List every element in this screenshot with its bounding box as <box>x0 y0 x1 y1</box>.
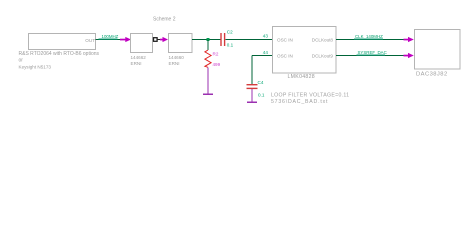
underline of net label CLK_140MHZ <box>354 38 383 40</box>
svg-text:0.1: 0.1 <box>258 93 265 98</box>
wire junction to R2 <box>207 40 209 50</box>
svg-text:OSC IN: OSC IN <box>277 38 293 43</box>
svg-text:OUT: OUT <box>85 38 95 43</box>
svg-text:LMK04828: LMK04828 <box>288 74 316 80</box>
svg-text:Keysight N5173: Keysight N5173 <box>19 65 52 70</box>
svg-text:100MHZ: 100MHZ <box>102 34 119 39</box>
svg-text:OSC IN: OSC IN <box>277 54 293 59</box>
svg-text:R&S RTO2064 with RTO-B6 option: R&S RTO2064 with RTO-B6 options <box>19 51 100 57</box>
svg-text:Scheme 2: Scheme 2 <box>153 17 176 23</box>
arrow into attenuator 2 <box>160 37 168 42</box>
ground bar below C4 <box>247 101 257 103</box>
wire DCLKout9 to DAC <box>336 55 405 57</box>
wire C2 to OSC IN pin 43 <box>225 39 272 41</box>
capacitor C4 <box>247 84 258 89</box>
underline of net label 100MHZ <box>99 38 118 40</box>
svg-text:144660: 144660 <box>169 55 185 60</box>
wire attenuator 2 to C2 <box>192 39 220 41</box>
svg-text:DCLKout8: DCLKout8 <box>312 38 334 43</box>
svg-text:SYSREF_DAC: SYSREF_DAC <box>358 50 387 55</box>
svg-text:DAC38J82: DAC38J82 <box>416 72 448 78</box>
wire C4 to ground <box>251 89 253 101</box>
block signal generator (R&S RTO2064) <box>29 34 96 50</box>
svg-text:ERNI: ERNI <box>131 61 142 66</box>
attenuator block 144660 <box>169 34 193 53</box>
svg-text:C2: C2 <box>227 30 233 35</box>
svg-text:ERNI: ERNI <box>169 61 180 66</box>
svg-text:5736\DAC_BAD.txt: 5736\DAC_BAD.txt <box>271 99 328 105</box>
wire OUT to arrow <box>96 39 122 41</box>
wire R2 to ground <box>207 67 209 93</box>
pin square on attenuator output <box>154 38 158 42</box>
svg-text:DCLKout9: DCLKout9 <box>312 54 334 59</box>
arrow into attenuator 1 <box>120 37 131 42</box>
svg-text:R2: R2 <box>213 52 219 57</box>
svg-text:or: or <box>19 58 24 64</box>
svg-text:144662: 144662 <box>131 55 147 60</box>
attenuator block 144662 <box>131 34 153 53</box>
wire down to C4 <box>251 56 253 85</box>
wire OSC IN pin 44 stub <box>252 55 273 57</box>
svg-text:0.1: 0.1 <box>227 43 234 48</box>
wire DCLKout8 to DAC <box>336 39 405 41</box>
svg-text:44: 44 <box>263 50 269 55</box>
ground bar below R2 <box>203 93 213 95</box>
capacitor C2 <box>220 33 225 46</box>
arrow SYSREF into DAC <box>404 53 414 58</box>
resistor R2 <box>205 50 211 67</box>
block DAC38J82 <box>415 30 461 70</box>
IC U1 LMK04828 <box>273 27 337 74</box>
junction node <box>207 38 210 41</box>
arrow CLK into DAC <box>404 37 414 42</box>
underline of net label SYSREF_DAC <box>357 54 386 56</box>
wire pin to arrow <box>158 39 163 41</box>
svg-text:LOOP FILTER VOLTAGE=0.11: LOOP FILTER VOLTAGE=0.11 <box>271 93 349 99</box>
svg-text:C4: C4 <box>258 80 264 85</box>
svg-text:499: 499 <box>213 62 221 67</box>
svg-text:CLK_140MHZ: CLK_140MHZ <box>355 34 383 39</box>
svg-text:43: 43 <box>263 34 269 39</box>
